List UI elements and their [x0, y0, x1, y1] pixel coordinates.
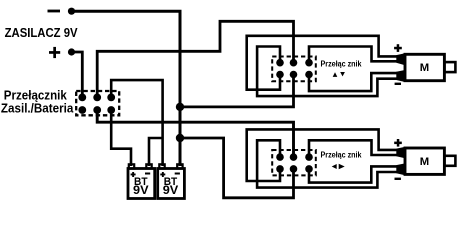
S2 pin TC1	[290, 59, 298, 67]
wire: S3 BR1b down, right, up to motor2 minus wedge upper lead	[309, 166, 398, 182]
arrow up (top module)	[333, 72, 338, 77]
node 2: minus bus junction feeding bottom module	[176, 134, 184, 142]
svg-text:9V: 9V	[133, 185, 149, 197]
svg-text:Przełąc znik: Przełąc znik	[321, 150, 362, 160]
motor2 minus terminal wedge	[396, 163, 405, 175]
main switch S1 pin TL2	[78, 94, 86, 102]
wire: S2 BL1 down, left, up around box top to motor1 plus wedge upper lead	[247, 36, 398, 90]
battery BT1 plus mark	[131, 174, 136, 176]
svg-text:Przełącznik: Przełącznik	[4, 88, 67, 102]
main switch S1 pin TR2	[107, 94, 115, 102]
svg-text:ZASILACZ 9V: ZASILACZ 9V	[5, 25, 78, 40]
S2 pin BR1	[305, 71, 313, 79]
svg-text:M: M	[420, 62, 429, 74]
S3 pin TR1b	[305, 153, 313, 161]
motor2 plus terminal wedge	[396, 147, 405, 158]
motor M1 body	[405, 54, 444, 80]
battery BT1 case	[128, 169, 155, 199]
wire: S2 BR1 down, right, up to motor1 minus wedge upper lead	[309, 73, 398, 91]
S2 pin TR1	[305, 59, 313, 67]
bottom module: DPDT switch S3 dashed box	[272, 150, 316, 175]
svg-text:M: M	[420, 156, 429, 168]
wire: minus rail node1 to top module pin BC1	[180, 75, 294, 107]
node: zasilacz minus output	[68, 8, 75, 15]
motor2 plus label	[394, 142, 402, 145]
wire: minus bus from zasilacz node right then down to battery2 minus	[72, 11, 181, 166]
wire: S3 TR1b up, right, down to motor2 plus wedge lower lead	[309, 140, 398, 157]
arrow right (bottom module)	[339, 164, 345, 170]
wire: S3 BL1b down, left, up around box top to motor2 plus wedge upper lead	[247, 129, 398, 181]
S3 pin BR1b	[305, 165, 313, 173]
svg-text:Przełąc znik: Przełąc znik	[321, 58, 362, 68]
S3 pin TL1b	[276, 153, 284, 161]
S2 pin TL1	[276, 59, 284, 67]
main switch S1 dashed box	[76, 91, 119, 115]
battery BT2 minus terminal nub	[177, 164, 182, 168]
main switch S1 pin TC2	[93, 94, 101, 102]
S2 pin BC1	[290, 71, 298, 79]
battery BT1 minus mark	[145, 173, 150, 175]
node: zasilacz plus output	[68, 48, 75, 55]
motor1 plus terminal wedge	[396, 53, 405, 65]
battery BT2 minus mark	[175, 173, 180, 175]
S3 pin BL1b	[276, 165, 284, 173]
svg-text:9V: 9V	[163, 185, 179, 197]
wire: S1 common BC2 down, rail right, down to bottom module pin TC1b	[97, 110, 293, 157]
motor M2 shaft	[444, 156, 455, 166]
arrow down (top module)	[340, 72, 345, 76]
node 1: minus bus junction feeding top module	[176, 103, 184, 111]
power supply plus terminal sign	[49, 51, 60, 54]
arrow left (bottom module)	[332, 164, 337, 169]
wire: S2 TL1 up, left, down, under box to motor1 minus wedge lower lead	[257, 47, 397, 97]
motor2 minus label	[395, 178, 401, 180]
wire: S2 TR1 up, right, down to motor1 plus wedge lower lead	[309, 47, 398, 63]
top module: DPDT switch S2 dashed box	[272, 57, 316, 82]
motor M2 body	[405, 148, 444, 174]
main switch S1 pin BC2	[93, 106, 101, 114]
battery BT2 plus terminal nub	[159, 164, 164, 168]
motor1 minus label	[395, 83, 401, 85]
main switch S1 pin BR2	[107, 106, 115, 114]
wire: S1 throw TR2 up, right, down to battery2 plus	[111, 80, 162, 166]
wire: zasilacz plus to main switch pin TL2	[72, 52, 83, 97]
battery BT1 minus terminal nub	[146, 164, 151, 168]
power supply minus terminal bar	[48, 10, 61, 13]
wire: S3 TL1b up, left, down, under box to motor2 minus wedge lower lead	[257, 140, 397, 187]
main switch S1 pin BL2	[78, 106, 86, 114]
wire: S1 common TC2 up, plus rail right, riser up and over to top module pin TC1	[97, 21, 293, 97]
motor M1 shaft	[444, 62, 455, 72]
S3 pin BC1b	[290, 165, 298, 173]
battery BT2 case	[158, 169, 185, 199]
wire: series link battery1 minus to battery2 plus riser	[149, 138, 163, 166]
wire: minus rail node2 around to bottom module pin BC1b	[180, 138, 294, 198]
battery BT1 plus terminal nub	[129, 164, 134, 168]
motor1 plus label	[394, 47, 402, 50]
S3 pin TC1b	[290, 153, 298, 161]
motor1 minus terminal wedge	[396, 70, 405, 82]
wire: S1 throw BR2 down, left jog, to battery1 plus	[111, 110, 131, 166]
S2 pin BL1	[276, 71, 284, 79]
battery BT2 plus mark	[160, 174, 165, 176]
svg-text:Zasil./Bateria: Zasil./Bateria	[1, 102, 74, 116]
